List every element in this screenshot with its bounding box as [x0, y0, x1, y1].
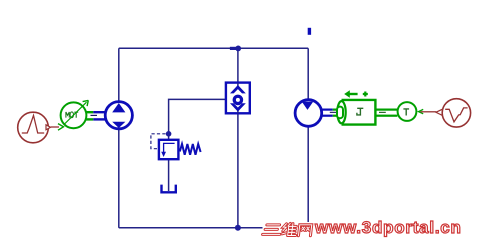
- arrowhead into prime mover: [58, 124, 64, 131]
- speed arrow of inertia: [344, 90, 368, 98]
- motor M1: [295, 100, 322, 127]
- wire check valve bottom branch: [237, 114, 239, 228]
- prime mover M0T: [61, 100, 89, 128]
- shaft flange prime mover to pump: [86, 111, 105, 121]
- arrowhead into torque source: [419, 109, 424, 113]
- inertia J: [337, 100, 375, 125]
- wire left vertical to pump top: [118, 48, 120, 101]
- check valve V1: [226, 83, 250, 114]
- wire relief valve branch: [169, 99, 226, 139]
- torque source T: [398, 102, 417, 121]
- shaft flange inertia to torque source: [375, 109, 398, 117]
- node junction relief pilot: [166, 131, 172, 137]
- port tick above motor: [308, 28, 311, 35]
- signal source S1 pulse: [18, 112, 51, 143]
- wire top bus P: [119, 47, 308, 49]
- watermark CJK characters san wei wang: [262, 223, 312, 235]
- watermark backing band: [263, 222, 461, 237]
- pump U1: [105, 102, 132, 129]
- wire bottom bus T: [119, 227, 308, 229]
- wire signal S2 to torque source: [421, 111, 437, 113]
- tank T1: [162, 185, 176, 193]
- signal source S2: [436, 99, 471, 127]
- wire signal S1 to prime mover: [51, 126, 59, 128]
- wire pump bottom to bottom bus: [118, 130, 120, 228]
- wire motor bottom to bottom bus: [307, 126, 309, 228]
- watermark: [315, 220, 462, 235]
- node junction bottom bus: [235, 225, 241, 231]
- wire relief valve to tank: [168, 160, 170, 191]
- wire right vertical top to motor: [307, 48, 309, 100]
- node junction top bus: [230, 47, 238, 50]
- spring of relief valve: [180, 144, 201, 155]
- pilot line dashed: [151, 134, 166, 149]
- shaft flange motor to inertia: [322, 109, 342, 117]
- wire check valve top branch: [237, 48, 239, 82]
- relief valve RV1: [159, 140, 179, 159]
